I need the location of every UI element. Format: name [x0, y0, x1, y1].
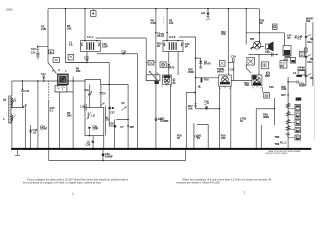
wire volume feed: [196, 108, 220, 110]
svg-text:1.5: 1.5: [69, 43, 73, 47]
svg-text:2.2K: 2.2K: [41, 27, 46, 31]
wire ground bus: [12, 148, 311, 150]
thermistor TH1: [266, 72, 269, 75]
node bus junction 1: [65, 8, 67, 10]
svg-text:C21: C21: [230, 68, 235, 72]
diode L6: [206, 13, 211, 21]
antenna ferrite rod: [9, 96, 11, 123]
box mixer: [219, 61, 225, 67]
wire main AVC rail: [12, 80, 85, 82]
svg-text:L61: L61: [201, 11, 206, 15]
wire antenna down: [11, 120, 13, 149]
svg-text:C29: C29: [86, 143, 91, 147]
svg-text:TR8: TR8: [274, 135, 279, 139]
svg-text:0.1MF: 0.1MF: [40, 127, 48, 131]
svg-text:R16: R16: [204, 78, 209, 82]
variable capacitor C1b: [88, 85, 91, 108]
svg-text:C28: C28: [109, 121, 114, 125]
node loop: [194, 92, 196, 94]
svg-text:0.04MF: 0.04MF: [160, 119, 169, 123]
box fuse F1: [280, 61, 287, 69]
svg-text:INPUT: INPUT: [217, 69, 225, 73]
svg-text:12K: 12K: [169, 21, 174, 25]
wire C32 link: [249, 53, 277, 55]
transistor TR6: [252, 75, 262, 89]
svg-text:10K: 10K: [67, 26, 72, 30]
node C7: [127, 125, 129, 127]
capacitor C13: [29, 129, 32, 132]
wire C41 branch: [197, 125, 208, 149]
node bus junction 7: [245, 8, 247, 10]
capacitor C32: [272, 53, 274, 57]
electrolytic C36: [262, 88, 269, 99]
capacitor C12: [21, 89, 24, 92]
node rail C14: [37, 80, 39, 82]
node T2 tap: [166, 32, 168, 34]
switch S1a: [305, 35, 312, 40]
svg-text:set connected to a supply of 9: set connected to a supply of 9 Volts, no…: [23, 182, 102, 185]
node osc box bottom: [89, 135, 91, 137]
svg-text:L5 L8: L5 L8: [169, 35, 176, 39]
svg-text:LS: LS: [293, 71, 297, 75]
transistor TR5: [247, 58, 255, 66]
wire R13 drop: [227, 9, 229, 75]
svg-text:100M: 100M: [6, 8, 13, 11]
wire TR1 base link: [55, 91, 73, 93]
wire oscillator box: [85, 108, 104, 136]
wire T1 secondary out: [96, 38, 147, 81]
svg-text:C27: C27: [110, 111, 115, 115]
diode box D3: [53, 58, 59, 63]
wire gang dashes IF: [146, 80, 156, 82]
wire diagonal to TR3: [150, 72, 158, 80]
wire C10 link: [97, 53, 138, 55]
svg-text:5P: 5P: [185, 45, 188, 49]
box S2a: [295, 104, 301, 110]
transistor TR1: [57, 74, 69, 87]
trimmer C6 arrow: [121, 107, 126, 111]
transistor TR3: [162, 75, 173, 87]
wire agc rect: [116, 85, 128, 149]
wire bus right corner: [258, 9, 260, 42]
node bus junction 5: [207, 8, 209, 10]
svg-text:TR7: TR7: [250, 37, 255, 41]
svg-text:47K: 47K: [221, 32, 226, 36]
node bus junction 6: [228, 8, 230, 10]
switch S1c: [305, 75, 307, 77]
wire left rail drop: [11, 81, 13, 96]
diode box D5: [160, 62, 166, 68]
svg-text:SW: SW: [306, 19, 311, 23]
svg-text:S1a: S1a: [307, 40, 312, 44]
svg-text:C15: C15: [31, 47, 36, 51]
bus junction marks: [11, 148, 289, 150]
coil L1: [11, 98, 16, 107]
wire below-bus loop: [49, 150, 186, 161]
box S1 contact: [304, 48, 307, 52]
resistor chain R43: [286, 126, 295, 131]
svg-text:100P: 100P: [102, 45, 108, 49]
box S2d: [295, 128, 301, 133]
capacitor C26: [88, 127, 90, 136]
wire C40 drop: [193, 123, 195, 148]
box output trafo: [299, 51, 304, 57]
wire R8 long drop: [155, 9, 157, 149]
svg-text:C17: C17: [41, 72, 46, 76]
wire R6 branch: [65, 9, 87, 63]
node rail left: [22, 80, 24, 82]
node volume feed: [205, 108, 207, 110]
svg-text:390R: 390R: [263, 115, 269, 119]
svg-text:L4 L7: L4 L7: [87, 35, 94, 39]
wire R38 link: [256, 109, 274, 149]
svg-text:.05: .05: [287, 36, 291, 40]
box jack J2: [296, 98, 302, 101]
svg-text:1: 1: [243, 190, 245, 194]
wire TR3 collector drop: [170, 84, 172, 148]
svg-text:47R: 47R: [244, 83, 249, 87]
wire vol col drop: [287, 77, 289, 149]
switch S1b: [305, 55, 312, 60]
svg-text:L11: L11: [91, 113, 96, 117]
ground chassis stub: [15, 150, 20, 155]
wire T2 secondary out: [179, 37, 196, 109]
svg-text:R33: R33: [265, 74, 270, 78]
svg-text:30P: 30P: [130, 125, 135, 129]
node C49: [102, 160, 104, 162]
box filter X: [146, 61, 156, 66]
transistor TR2 blob: [155, 72, 159, 84]
wire mixer drop: [105, 106, 107, 136]
wire rail step: [85, 79, 128, 84]
switch S1 column wires: [306, 22, 313, 86]
capacitor C30: [155, 118, 158, 121]
node bus junction 4: [166, 8, 168, 10]
wire C2 drop: [58, 92, 60, 149]
wire TR4 collector drop: [230, 86, 232, 148]
svg-text:25MF: 25MF: [299, 84, 306, 88]
coil L2: [11, 115, 16, 122]
svg-text:R.L.C: R.L.C: [280, 140, 287, 144]
svg-text:C16: C16: [84, 55, 89, 59]
svg-text:100P: 100P: [92, 127, 98, 131]
svg-text:R27: R27: [281, 93, 286, 97]
capacitor C17: [43, 76, 46, 81]
speaker LS: [260, 42, 274, 52]
wire det diode line: [196, 58, 203, 68]
svg-text:39K: 39K: [67, 113, 72, 117]
capacitor C49: [102, 154, 105, 157]
node R8 tap: [155, 32, 157, 34]
svg-text:175: 175: [105, 118, 110, 122]
node R38: [274, 108, 276, 110]
node rail TR1: [72, 80, 74, 82]
node TR4 feed: [219, 108, 221, 110]
arc loop out: [266, 50, 270, 53]
svg-text:L10: L10: [80, 104, 85, 108]
wire detector link: [66, 63, 109, 127]
box jack J1: [296, 71, 305, 77]
resistor R17: [194, 104, 197, 107]
diode D7: [199, 61, 202, 64]
resistor chain R40: [286, 103, 295, 108]
node C43: [287, 81, 289, 83]
wire osc mid drop: [92, 136, 94, 149]
svg-text:1K: 1K: [157, 44, 160, 48]
transistor TR4: [219, 75, 232, 89]
svg-text:S1b: S1b: [307, 60, 312, 64]
svg-text:5OHM: 5OHM: [297, 68, 305, 72]
junction block: [114, 125, 116, 127]
capacitor C16: [86, 60, 89, 61]
coil L10 osc: [84, 104, 86, 111]
potentiometer VR1 volume: [283, 46, 291, 58]
node mix cross: [108, 84, 110, 86]
wire top supply bus: [48, 8, 260, 10]
transistor TR9 output: [251, 41, 261, 50]
box S2c: [295, 119, 301, 125]
box C34: [291, 58, 296, 64]
wire C13 drop: [30, 125, 32, 149]
node C32: [276, 54, 278, 56]
wire C49 drop: [102, 150, 104, 161]
svg-text:C14: C14: [31, 51, 36, 55]
node spine top: [195, 57, 197, 59]
svg-text:L: L: [3, 117, 5, 121]
wire antenna tap: [12, 106, 24, 108]
diode D6: [167, 64, 170, 66]
coil L11: [87, 112, 91, 120]
node R2A: [287, 94, 289, 96]
wire TR4 emitter drop: [218, 86, 220, 148]
wire osc box left: [84, 79, 86, 107]
wire diagonal to TR1: [48, 63, 57, 74]
wire left bus drop: [38, 9, 48, 63]
box S2b: [295, 112, 301, 118]
wire C14 branch drop: [37, 81, 39, 149]
svg-text:C1b: C1b: [84, 88, 89, 92]
svg-text:100MF: 100MF: [105, 155, 113, 159]
wire gang line C1a: [48, 81, 50, 100]
capacitor C18: [172, 79, 176, 84]
wire C43 link: [288, 81, 297, 83]
node D1: [86, 62, 88, 64]
node spine mid: [195, 77, 197, 79]
svg-text:C36: C36: [269, 85, 274, 89]
wire right feed: [246, 9, 284, 46]
wire T1 feed: [84, 9, 86, 41]
diode box D4: [68, 54, 74, 60]
box S2e: [295, 135, 301, 140]
wire R4 drop: [72, 77, 74, 149]
transformer T2: [163, 40, 183, 52]
svg-text:1K: 1K: [240, 119, 243, 123]
wire out bias: [231, 80, 252, 82]
capacitor C15 small: [36, 46, 39, 51]
svg-text:39K: 39K: [76, 69, 81, 73]
node rail C17: [43, 80, 45, 82]
node bus junction 3: [155, 8, 157, 10]
svg-text:C12: C12: [24, 89, 29, 93]
wire C12 drop: [22, 81, 24, 108]
svg-text:3.9K: 3.9K: [281, 87, 286, 91]
transformer T1: [81, 40, 101, 52]
wire TR6 feed: [258, 54, 260, 75]
wire TR5 emitter diag: [246, 65, 251, 74]
svg-text:5.6K: 5.6K: [151, 21, 156, 25]
svg-text:10K: 10K: [188, 106, 193, 110]
svg-text:.01: .01: [161, 34, 165, 38]
lamp PL1: [91, 9, 96, 17]
svg-text:WITHOUT MOTIF OHMS F: WITHOUT MOTIF OHMS F: [266, 153, 289, 155]
varicap C2b: [108, 107, 114, 110]
trimmer C5 arrow: [100, 103, 104, 106]
svg-text:PU: PU: [281, 65, 285, 69]
svg-text:250K: 250K: [188, 70, 194, 74]
wire C5 branch: [109, 119, 114, 148]
node bus junction 2: [84, 8, 86, 10]
svg-text:1K: 1K: [177, 136, 180, 140]
resistor R16: [201, 78, 203, 83]
wire trimmer drop: [24, 106, 26, 149]
gang dashes at T2 feed: [163, 16, 165, 24]
svg-text:0.1: 0.1: [298, 37, 302, 41]
node antenna tap: [11, 107, 13, 109]
svg-text:OA79: OA79: [204, 62, 211, 66]
wire C36 drop: [273, 98, 275, 125]
svg-text:TR9: TR9: [274, 142, 279, 146]
wire L6 stub: [207, 9, 209, 12]
svg-text:.02: .02: [197, 136, 201, 140]
wire C19 drop: [228, 63, 233, 81]
wire osc right drop: [103, 136, 105, 149]
node feed tap: [259, 32, 261, 34]
svg-text:OA70: OA70: [168, 66, 175, 70]
svg-text:0.1: 0.1: [50, 108, 54, 112]
capacitor C43: [297, 81, 298, 84]
capacitor C19: [233, 58, 235, 62]
box TR1 filter: [55, 86, 67, 92]
node agc corner: [127, 119, 129, 121]
svg-text:resistors are shown in Ohms K=: resistors are shown in Ohms K=1,000.: [176, 182, 221, 185]
wire long drop C10: [137, 54, 139, 149]
resistor chain R41: [286, 111, 295, 116]
svg-text:C46: C46: [204, 99, 209, 103]
page fold line: [314, 78, 316, 140]
box thermistor: [273, 24, 278, 30]
capacitor C48: [294, 36, 297, 39]
wire TR2 box: [146, 75, 160, 81]
svg-text:1: 1: [72, 192, 74, 196]
svg-text:1K: 1K: [260, 21, 263, 25]
capacitor C14: [36, 51, 39, 60]
svg-text:C19: C19: [231, 55, 236, 59]
diode box D2: [49, 50, 54, 54]
wire C16 stub: [86, 52, 88, 63]
wire C1a drop solid: [48, 100, 50, 149]
wire R17 drop: [196, 77, 219, 79]
wire T2 leads down: [169, 52, 178, 76]
trimmer C1a arrow: [22, 105, 27, 108]
box driver trafo: [261, 62, 269, 69]
variable capacitor C4: [99, 85, 102, 108]
wire T2 feed: [166, 9, 168, 41]
svg-text:10K: 10K: [221, 136, 226, 140]
wire neutral loop: [186, 93, 195, 149]
capacitor chain C50: [286, 134, 296, 138]
resistor chain R42: [286, 119, 295, 124]
capacitor C22: [197, 86, 201, 89]
svg-text:.01: .01: [33, 131, 37, 135]
capacitor C29: [87, 141, 94, 143]
svg-text:M: M: [3, 98, 6, 102]
trimmer C46: [204, 103, 209, 110]
wire output drop: [260, 125, 262, 149]
